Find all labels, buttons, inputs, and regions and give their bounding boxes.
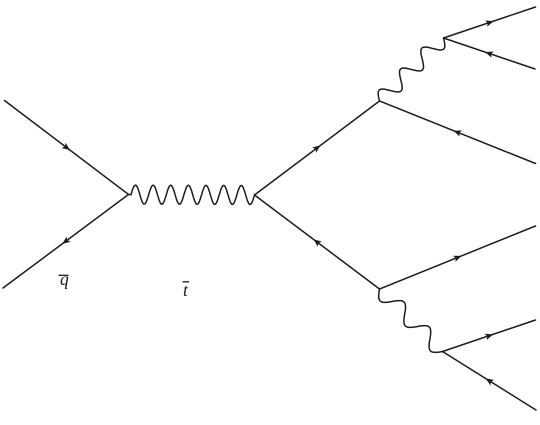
incoming antiquark line qbar [3,195,129,289]
incoming quark line q [5,101,129,195]
outgoing fermion from W vertex V4 (upper) [444,7,536,38]
arrow on b antiquark (toward V3) [453,131,462,137]
arrow outgoing fermion from V6 [485,334,494,340]
W boson wavy line V3 to V4 [378,38,445,101]
arrow on b quark (outward) [453,256,462,262]
W boson wavy line V5 to V6 [379,289,443,352]
arrow on anti-top (toward V2) [313,239,321,246]
anti-top quark line V2 to V5 [255,195,380,289]
arrow on top quark (toward V3) [312,145,320,152]
arrow antifermion toward V4 [485,52,494,58]
incoming antifermion to W vertex V4 (lower) [444,38,536,69]
outgoing fermion from W vertex V6 (upper) [443,320,536,352]
arrow on incoming quark [62,143,70,150]
gluon propagator between V1 and V2 [129,194,132,196]
b quark line from V5 [380,226,536,289]
svg-text:q: q [60,269,69,289]
arrow antifermion toward V6 [486,378,495,385]
label qbar [59,269,70,289]
incoming antifermion to W vertex V6 (lower) [443,352,537,411]
arrow on antiquark (pointing outward) [62,236,70,243]
arrow outgoing fermion upper [485,21,494,27]
top quark line V2 to V3 [255,101,380,195]
label tbar [183,280,190,300]
b antiquark line from V3 [380,101,536,164]
